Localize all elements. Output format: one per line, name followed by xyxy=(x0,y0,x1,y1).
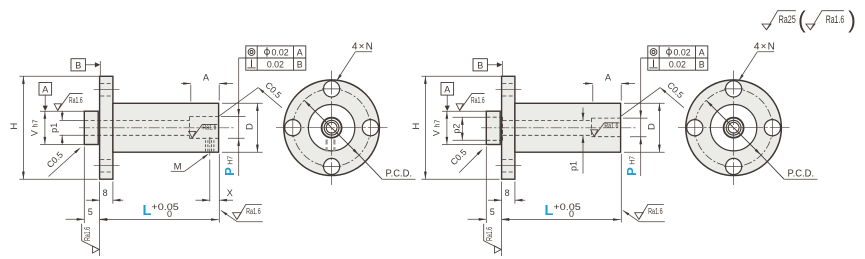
surface finish Ra1.6 at shaft end face (leader with shelf) xyxy=(623,210,630,215)
dimension 5 (hub protrusion) xyxy=(66,218,85,220)
svg-text:Ra1.6: Ra1.6 xyxy=(69,96,83,105)
svg-text:H7: H7 xyxy=(629,156,636,165)
flange bottom bolt hole hidden lines xyxy=(502,158,514,160)
front view center lines xyxy=(331,71,333,186)
svg-text:P.C.D.: P.C.D. xyxy=(386,168,413,180)
hub circle (front view) xyxy=(710,105,756,151)
svg-text:A: A xyxy=(297,47,303,57)
dimension D (shaft diameter) xyxy=(658,103,660,152)
svg-text:Ra25: Ra25 xyxy=(779,14,796,26)
svg-text:0.02: 0.02 xyxy=(267,60,284,70)
dimension p1 (bore diameter) xyxy=(61,112,63,121)
bolt hole circle P.C.D. (center dash-dot) xyxy=(695,89,773,167)
svg-text:Ra1.6: Ra1.6 xyxy=(83,226,92,240)
dimension 8 (flange thickness) xyxy=(86,199,100,201)
svg-text:Ra1.6: Ra1.6 xyxy=(485,226,494,240)
concentricity symbol xyxy=(248,49,255,56)
concentricity symbol xyxy=(650,49,657,56)
inner surface finish Ra1.6 in P bore xyxy=(189,123,218,138)
svg-text:D: D xyxy=(244,123,255,130)
hub circle (front view) xyxy=(308,105,354,151)
surface finish Ra1.6 on hub step face xyxy=(456,94,485,111)
chamfer C0.5 callout at P bore xyxy=(219,88,258,117)
L right extension line xyxy=(218,154,220,223)
dimension p2 (counterbore diameter) xyxy=(461,117,463,140)
svg-text:Ra1.6: Ra1.6 xyxy=(826,14,845,26)
hole center tick lines xyxy=(724,88,743,90)
svg-text:A: A xyxy=(444,84,450,94)
svg-text:V h7: V h7 xyxy=(432,120,442,137)
general surface roughness note Ra25 (Ra1.6) xyxy=(762,11,796,30)
svg-text:H7: H7 xyxy=(227,156,234,165)
svg-text:p2: p2 xyxy=(452,124,462,134)
geometric tolerance frame xyxy=(648,46,708,70)
flange bottom bolt hole center line xyxy=(496,165,522,167)
dimension V h7 extension lines xyxy=(40,110,85,112)
svg-text:H: H xyxy=(9,123,20,130)
flange top bolt hole center line xyxy=(94,89,120,91)
geometric tolerance frame xyxy=(246,46,306,70)
dimension D extension lines xyxy=(624,102,665,104)
bolt hole circle P.C.D. (center dash-dot) xyxy=(293,89,371,167)
dimension L with tolerance xyxy=(100,219,219,221)
surface finish Ra1.6 on hub step face xyxy=(54,94,83,111)
dimension L with tolerance xyxy=(502,219,621,221)
svg-text:Ra1.6: Ra1.6 xyxy=(471,96,485,105)
svg-text:H: H xyxy=(411,123,422,130)
dimension 8 extension lines xyxy=(501,182,503,257)
svg-text:+0.05: +0.05 xyxy=(151,202,178,212)
svg-text:): ) xyxy=(848,7,856,33)
four mounting holes 4xN xyxy=(324,81,340,97)
svg-text:D: D xyxy=(646,123,657,130)
P.C.D. diameter leader with arrows xyxy=(706,100,761,155)
dimension D (shaft diameter) xyxy=(256,103,258,152)
dimension X (tap position) xyxy=(196,199,210,201)
svg-text:0: 0 xyxy=(167,209,172,219)
dimension A (counterbore depth) xyxy=(181,83,191,85)
inner surface finish Ra1.6 in P bore xyxy=(591,121,620,136)
perpendicularity symbol xyxy=(251,60,253,68)
svg-text:0.02: 0.02 xyxy=(674,47,691,57)
dimension H extension lines xyxy=(422,75,503,77)
dimension P H7 extension lines xyxy=(623,117,648,119)
datum B symbol xyxy=(71,59,85,71)
dimension p2 extension lines xyxy=(453,116,487,118)
svg-text:Ra1.6: Ra1.6 xyxy=(202,123,216,132)
dimension 8 (flange thickness) xyxy=(488,199,502,201)
surface finish Ra1.6 on flange mounting face (rotated) xyxy=(484,224,502,253)
svg-text:Ra1.6: Ra1.6 xyxy=(246,207,261,216)
L right extension line xyxy=(620,154,622,223)
hub cylinder (side view, left part) xyxy=(84,111,98,144)
p2/p1 bore step hidden line xyxy=(502,117,504,140)
four mounting holes 4xN xyxy=(726,81,742,97)
flange top bolt hole hidden lines xyxy=(100,82,112,84)
svg-text:B: B xyxy=(75,60,81,70)
dimension X extension line (tap axis) xyxy=(209,160,211,202)
flange (side view, left part) xyxy=(100,76,113,179)
svg-text:V h7: V h7 xyxy=(30,120,40,137)
svg-text:Ra1.6: Ra1.6 xyxy=(648,207,663,216)
svg-text:B: B xyxy=(699,60,705,70)
part axis center line xyxy=(481,127,636,129)
svg-text:B: B xyxy=(297,60,303,70)
bore p1 hidden lines xyxy=(503,119,592,121)
flange left face extension line (to datum B) xyxy=(501,61,503,76)
hole center tick lines xyxy=(322,88,341,90)
dimension P H7 extension lines xyxy=(221,116,246,118)
datum B symbol xyxy=(473,59,487,71)
svg-text:A: A xyxy=(699,47,705,57)
svg-text:4×N: 4×N xyxy=(352,42,373,53)
dimension H xyxy=(22,76,24,179)
label P.C.D. xyxy=(784,178,817,180)
flange top bolt hole center line xyxy=(496,89,522,91)
flange (side view, right part) xyxy=(502,76,515,179)
dimension 8 extension lines xyxy=(99,182,101,257)
dimension p1 (bore diameter, right drawing) xyxy=(582,108,584,121)
svg-text:(: ( xyxy=(798,7,806,33)
surface finish Ra1.6 at shaft end face (leader with shelf) xyxy=(221,210,228,215)
svg-text:0.02: 0.02 xyxy=(669,60,686,70)
dimension P H7 (with leader to tolerance frame) xyxy=(640,58,642,176)
svg-text:0: 0 xyxy=(569,209,574,219)
svg-text:A: A xyxy=(203,72,209,82)
P bore shoulder hidden line xyxy=(591,118,593,137)
hub cylinder (side view, right part) xyxy=(486,111,500,144)
svg-text:p1: p1 xyxy=(49,123,59,133)
tap M axis center line xyxy=(209,137,211,158)
svg-text:+0.05: +0.05 xyxy=(553,202,580,212)
tap M thread hidden lines xyxy=(205,140,207,152)
svg-text:5: 5 xyxy=(88,207,93,217)
P.C.D. diameter leader with arrows xyxy=(304,100,359,155)
svg-text:0.02: 0.02 xyxy=(272,47,289,57)
datum A symbol xyxy=(441,83,454,96)
perpendicularity symbol xyxy=(653,60,655,68)
chamfer C0.5 callout at hub xyxy=(459,150,481,172)
flange face circle (front view, left) xyxy=(284,80,380,176)
svg-text:4×N: 4×N xyxy=(754,42,775,53)
svg-text:p1: p1 xyxy=(569,161,579,171)
datum A symbol xyxy=(39,83,52,96)
dimension A extension lines xyxy=(592,85,594,102)
dimension A extension lines xyxy=(190,85,192,102)
chamfer C0.5 callout at hub xyxy=(49,149,80,177)
shaft body (side view, right part) xyxy=(515,103,621,152)
tap M hidden lines (gray, front view) xyxy=(326,140,328,152)
bore p1 hidden lines xyxy=(84,119,189,121)
svg-text:A: A xyxy=(42,84,48,94)
dimension V h7 xyxy=(44,111,46,144)
svg-text:P.C.D.: P.C.D. xyxy=(788,168,815,180)
svg-text:L: L xyxy=(142,203,151,219)
svg-text:5: 5 xyxy=(490,207,495,217)
dimension p1 extension lines xyxy=(60,119,85,121)
dimension 5 (hub protrusion) xyxy=(468,218,487,220)
svg-text:Ra1.6: Ra1.6 xyxy=(604,121,618,130)
flange top bolt hole hidden lines xyxy=(502,82,514,84)
chamfer C0.5 callout at P bore xyxy=(621,88,660,117)
flange bottom bolt hole hidden lines xyxy=(100,158,112,160)
dimension V h7 extension lines xyxy=(442,110,487,112)
dimension D extension lines xyxy=(222,102,263,104)
counterbore P hidden lines xyxy=(592,117,621,119)
dimension 5 extension line xyxy=(485,146,487,223)
front view center lines xyxy=(733,71,735,186)
P bore shoulder hidden line xyxy=(189,117,191,139)
dimension H xyxy=(424,76,426,179)
dimension V h7 xyxy=(446,111,448,144)
label P.C.D. xyxy=(382,178,415,180)
svg-text:B: B xyxy=(477,60,483,70)
dimension A (counterbore depth) xyxy=(583,83,593,85)
svg-text:8: 8 xyxy=(505,188,510,198)
shaft body (side view, left part) xyxy=(113,103,219,152)
svg-text:P: P xyxy=(222,167,237,176)
bore circles at center xyxy=(724,118,744,138)
svg-text:A: A xyxy=(605,72,611,82)
dimension 5 extension line xyxy=(83,146,85,223)
flange bottom bolt hole center line xyxy=(94,165,120,167)
surface finish Ra1.6 on flange mounting face (rotated) xyxy=(82,224,100,253)
svg-text:X: X xyxy=(227,188,233,198)
svg-text:8: 8 xyxy=(103,188,108,198)
svg-text:L: L xyxy=(544,203,553,219)
flange left face extension line (to datum B) xyxy=(99,61,101,76)
svg-text:M: M xyxy=(174,162,182,173)
part axis center line xyxy=(79,127,234,129)
counterbore p2 hidden lines (in hub) xyxy=(486,116,502,118)
svg-text:P: P xyxy=(624,167,639,176)
flange face circle (front view, right) xyxy=(686,80,782,176)
dimension H extension lines xyxy=(20,75,101,77)
counterbore P hidden lines xyxy=(190,116,219,118)
dimension P H7 (with leader to tolerance frame) xyxy=(238,58,240,176)
bore circles at center xyxy=(322,118,342,138)
